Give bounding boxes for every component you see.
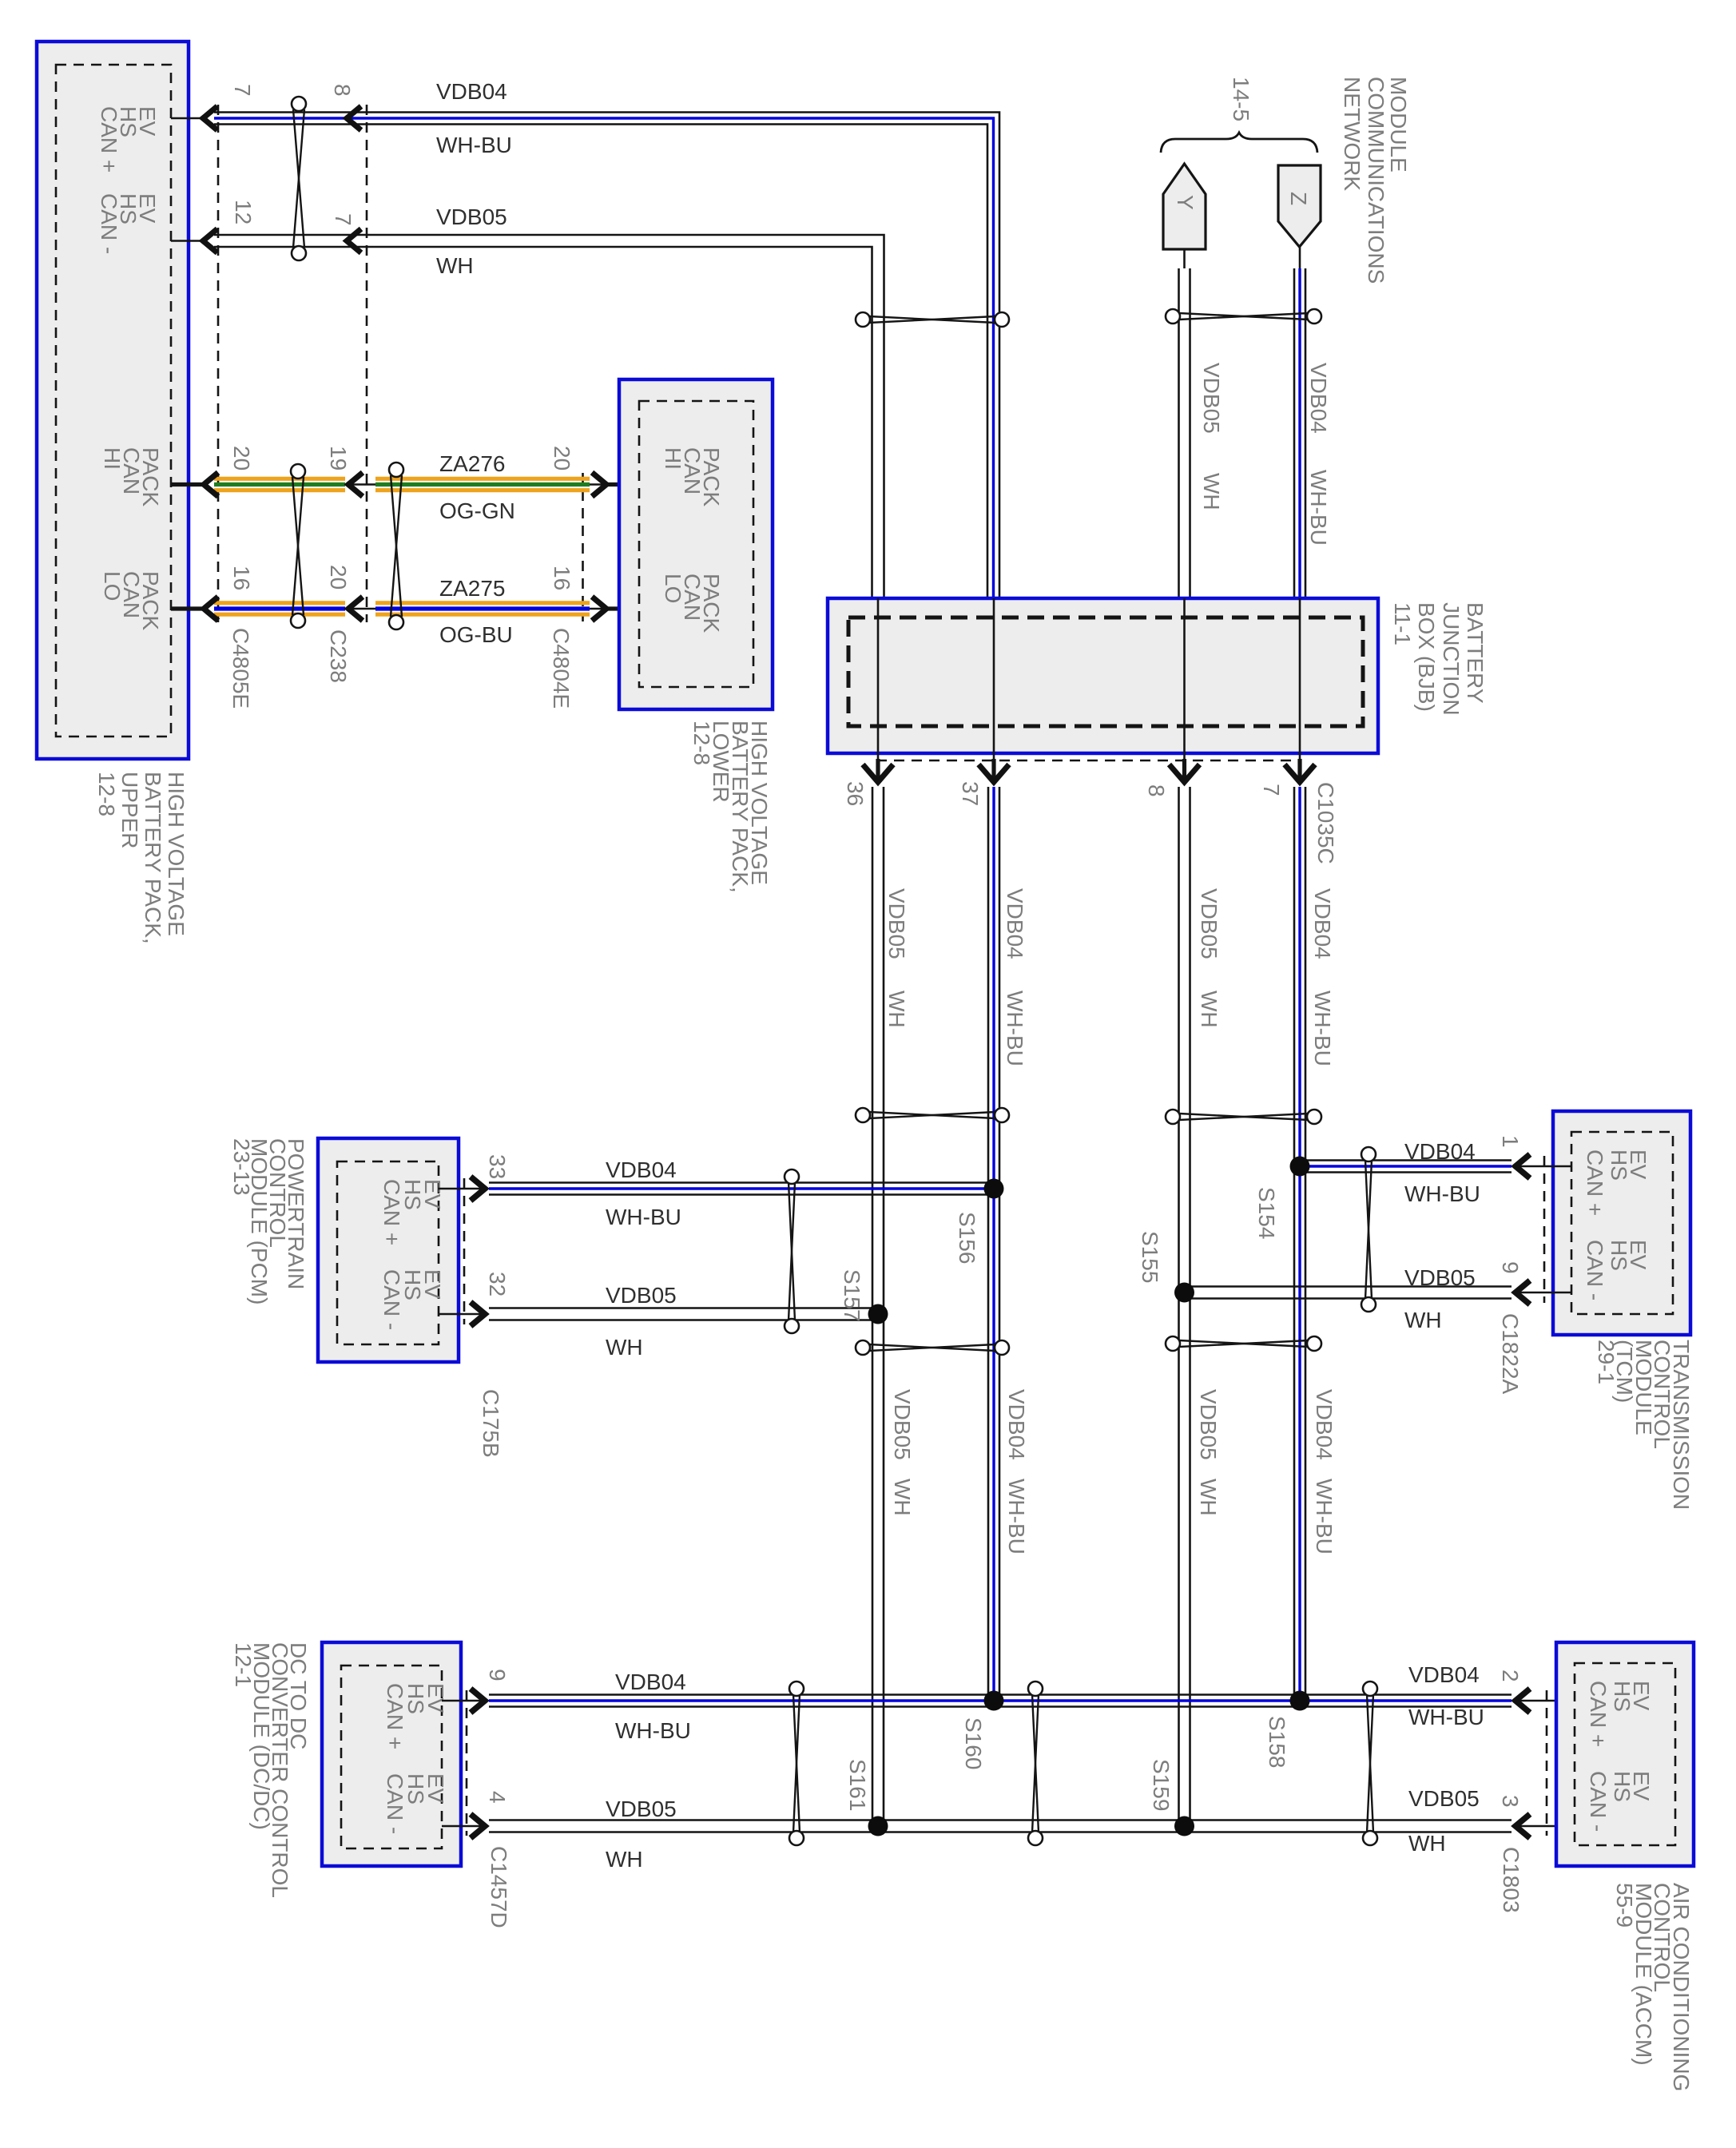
arrow at pin 9 (C1822A) <box>1516 1280 1530 1304</box>
arrow at pin 12 (C4805E) on VDB05 <box>203 229 217 253</box>
wire PACK CAN LO ZA275 OG-BU <box>171 603 639 614</box>
svg-text:S155: S155 <box>1138 1231 1162 1283</box>
svg-text:WH: WH <box>1408 1831 1446 1856</box>
svg-text:WH-BU: WH-BU <box>1312 1479 1337 1554</box>
svg-text:WH-BU: WH-BU <box>1306 470 1331 546</box>
svg-text:9: 9 <box>485 1669 510 1681</box>
svg-text:HIGH VOLTAGE: HIGH VOLTAGE <box>164 772 189 936</box>
svg-text:C238: C238 <box>326 629 351 683</box>
wire label VDB04 WH-BU (ACCM) <box>1408 1662 1484 1729</box>
svg-text:WH: WH <box>1197 991 1222 1028</box>
label: TRANSMISSION CONTROL MODULE (TCM) 29-1 <box>1594 1340 1694 1510</box>
svg-text:WH-BU: WH-BU <box>1404 1181 1480 1206</box>
pin label: EV HS CAN - (DC/DC) <box>383 1773 448 1834</box>
svg-text:CAN +: CAN + <box>383 1683 407 1749</box>
arrow at pin 32 (C175B) <box>471 1302 485 1326</box>
component box: AIR CONDITIONING CONTROL MODULE (ACCM) 55-9 <box>1556 1642 1694 1866</box>
wire label VDB04 WH-BU (DC/DC) <box>615 1670 691 1743</box>
wire label VDB05 WH (top) <box>436 204 507 278</box>
arrow at pin 7 (C4805E) on VDB04 <box>203 106 217 130</box>
svg-text:OG-GN: OG-GN <box>439 498 515 523</box>
svg-text:CAN -: CAN - <box>97 193 121 254</box>
pin label: PACK CAN HI (battery pack upper) <box>100 447 163 506</box>
wire label ZA275 OG-BU <box>439 576 513 647</box>
svg-text:COMMUNICATIONS: COMMUNICATIONS <box>1364 77 1388 284</box>
arrow at pin 20 (C238) on PACK CAN LO <box>348 597 363 621</box>
svg-text:WH: WH <box>1404 1308 1442 1332</box>
wire label VDB05 WH (middle run below S157) <box>890 1389 915 1516</box>
connector plane C175B (dashed) <box>463 1178 466 1324</box>
svg-text:VDB05: VDB05 <box>1196 1389 1221 1460</box>
svg-text:CAN +: CAN + <box>379 1179 404 1245</box>
svg-text:C1803: C1803 <box>1499 1847 1523 1913</box>
svg-text:VDB04: VDB04 <box>606 1157 677 1182</box>
svg-text:VDB05: VDB05 <box>606 1797 677 1821</box>
arrow at pin 7 (C238) on VDB05 <box>347 229 361 253</box>
svg-text:HS: HS <box>1607 1149 1631 1181</box>
svg-text:LO: LO <box>100 571 125 601</box>
svg-text:BATTERY PACK,: BATTERY PACK, <box>141 772 165 944</box>
svg-text:VDB04: VDB04 <box>1003 888 1027 959</box>
svg-text:CAN -: CAN - <box>379 1269 404 1330</box>
wire VDB04 through BJB (x=1627) <box>1299 598 1301 784</box>
wire VDB04 WH-BU from S154 to TCM <box>1300 1161 1571 1173</box>
svg-text:HI: HI <box>661 447 685 470</box>
svg-text:16: 16 <box>550 566 574 590</box>
svg-text:WH-BU: WH-BU <box>436 133 512 157</box>
off-page flag Y <box>1163 164 1206 249</box>
svg-text:37: 37 <box>958 781 983 806</box>
svg-text:WH-BU: WH-BU <box>615 1718 691 1743</box>
svg-text:7: 7 <box>230 84 255 97</box>
twisted pair symbol (Y/Z pair above BJB) <box>1166 309 1321 324</box>
pin label: EV HS CAN + (ACCM) <box>1586 1681 1654 1747</box>
svg-text:CAN +: CAN + <box>1586 1681 1611 1747</box>
svg-text:LO: LO <box>661 574 685 603</box>
junction S157 <box>868 1304 888 1324</box>
twisted pair symbol (right pair, above TCM level) <box>1166 1110 1321 1124</box>
twisted pair symbol (PACK CAN, left of C238) <box>291 464 305 628</box>
label: HIGH VOLTAGE BATTERY PACK, UPPER 12-8 <box>94 772 189 944</box>
svg-text:CAN -: CAN - <box>1583 1240 1607 1300</box>
svg-text:VDB04: VDB04 <box>436 79 507 104</box>
wire label VDB04 WH-BU (right run below S154) <box>1312 1389 1337 1554</box>
arrow at pin 9 (C1457D) <box>471 1689 485 1713</box>
pin label: PACK CAN LO (battery pack lower) <box>661 574 724 633</box>
svg-text:WH: WH <box>884 991 909 1028</box>
pin label: EV HS CAN - (PCM) <box>379 1269 445 1330</box>
svg-text:JUNCTION: JUNCTION <box>1439 602 1464 716</box>
wire label VDB04 WH-BU (middle run below BJB) <box>1003 888 1027 1066</box>
twisted pair symbol (middle pair, above PCM level) <box>856 1108 1009 1122</box>
svg-text:S156: S156 <box>955 1212 979 1264</box>
svg-text:WH: WH <box>1199 473 1224 510</box>
svg-text:BOX (BJB): BOX (BJB) <box>1414 602 1439 712</box>
connector plane C1822A (dashed) <box>1543 1156 1546 1303</box>
svg-text:C1035C: C1035C <box>1313 782 1338 864</box>
arrow pin 7 (C1035C) <box>1285 764 1315 782</box>
svg-text:WH: WH <box>1196 1479 1221 1516</box>
twisted pair symbol (middle pair above BJB) <box>856 312 1009 327</box>
arrow at pin 1 (C1822A) <box>1516 1154 1530 1178</box>
svg-text:C175B: C175B <box>479 1389 503 1458</box>
svg-text:20: 20 <box>229 446 254 470</box>
svg-text:BATTERY: BATTERY <box>1463 602 1488 704</box>
svg-text:HS: HS <box>1610 1771 1635 1802</box>
wire VDB04 WH-BU from PCM to S156 <box>439 1183 994 1195</box>
wire label VDB05 WH (middle run below BJB) <box>884 888 909 1028</box>
wire VDB05 WH from battery pack upper to BJB (second run) <box>171 235 884 598</box>
net label: MODULE COMMUNICATIONS NETWORK <box>1340 77 1411 284</box>
wire VDB05 WH from S155 to TCM <box>1185 1287 1572 1299</box>
svg-text:ZA275: ZA275 <box>439 576 506 601</box>
twisted pair symbol (PACK CAN, right of C238) <box>389 463 403 629</box>
wire VDB05 through BJB (x=1482.5) <box>1183 598 1186 784</box>
arrow at pin 20 (C4804E) on PACK CAN HI into lower pack <box>592 473 606 497</box>
svg-text:20: 20 <box>550 446 574 470</box>
arrow at pin 3 (C1803) <box>1516 1814 1530 1838</box>
junction S161 <box>868 1816 888 1836</box>
svg-text:S154: S154 <box>1254 1187 1279 1239</box>
pin label: EV HS CAN + (TCM) <box>1583 1149 1651 1216</box>
pin label: EV HS CAN - (ACCM) <box>1586 1771 1654 1832</box>
svg-text:C1457D: C1457D <box>487 1846 511 1928</box>
svg-text:VDB04: VDB04 <box>1306 363 1331 434</box>
label: DC TO DC CONVERTER CONTROL MODULE (DC/DC) 12-1 <box>231 1642 311 1898</box>
arrow at pin 8 (C238) on VDB04 <box>347 106 361 130</box>
svg-text:VDB05: VDB05 <box>436 204 507 229</box>
svg-text:32: 32 <box>485 1272 510 1296</box>
svg-text:NETWORK: NETWORK <box>1340 77 1365 191</box>
wire label VDB04 WH-BU (PCM) <box>606 1157 681 1229</box>
wire VDB05 WH from DC/DC to ACCM (bottom bus -) <box>442 1820 1575 1832</box>
connector box: HIGH VOLTAGE BATTERY PACK, UPPER 12-8 <box>37 42 189 759</box>
wire PACK CAN HI ZA276 OG-GN <box>171 478 639 490</box>
svg-text:VDB04: VDB04 <box>1408 1662 1480 1687</box>
connector plane C1803 (dashed) <box>1546 1690 1548 1836</box>
svg-text:OG-BU: OG-BU <box>439 622 513 647</box>
brace over flags Y and Z <box>1161 133 1317 153</box>
arrow at pin 16 (C4805E) on PACK CAN LO <box>204 597 218 621</box>
svg-text:1: 1 <box>1498 1135 1523 1148</box>
arrow pin 36 (C1035C) <box>863 764 893 782</box>
twisted pair symbol (ACCM CAN pair) <box>1363 1681 1377 1845</box>
svg-text:11-1: 11-1 <box>1390 602 1415 645</box>
svg-text:S161: S161 <box>845 1759 870 1811</box>
svg-text:C4804E: C4804E <box>549 628 574 709</box>
arrow at pin 33 (C175B) <box>471 1177 485 1201</box>
component box: DC TO DC CONVERTER CONTROL MODULE (DC/DC) 12-1 <box>322 1642 461 1866</box>
svg-text:HS: HS <box>1607 1240 1631 1271</box>
pin label: EV HS CAN + (battery pack upper) <box>97 106 160 173</box>
junction S160 <box>984 1691 1004 1711</box>
svg-text:7: 7 <box>1259 784 1284 796</box>
svg-text:7: 7 <box>331 213 356 226</box>
pin label: PACK CAN LO (battery pack upper) <box>100 571 163 630</box>
svg-text:VDB05: VDB05 <box>606 1283 677 1308</box>
svg-text:14-5: 14-5 <box>1229 77 1253 121</box>
wire VDB05 WH from PCM to S157 <box>439 1308 878 1320</box>
twisted pair symbol (DC/DC CAN pair) <box>789 1681 804 1845</box>
pin label: EV HS CAN - (battery pack upper) <box>97 193 160 254</box>
svg-text:12: 12 <box>231 200 256 224</box>
svg-text:16: 16 <box>229 566 254 590</box>
connector plane C4805E (dashed) <box>217 105 220 622</box>
svg-text:9: 9 <box>1498 1261 1523 1274</box>
wire VDB04 WH-BU from battery pack upper to BJB (top run) <box>171 113 999 599</box>
svg-text:Y: Y <box>1173 195 1198 210</box>
svg-text:36: 36 <box>843 781 868 806</box>
svg-text:VDB05: VDB05 <box>1408 1786 1480 1811</box>
svg-text:55-9: 55-9 <box>1612 1883 1637 1928</box>
svg-text:8: 8 <box>330 84 355 97</box>
svg-text:HS: HS <box>1610 1681 1635 1712</box>
wire label ZA276 OG-GN <box>439 451 515 523</box>
off-page flag Z <box>1278 165 1321 247</box>
svg-text:VDB05: VDB05 <box>1199 363 1224 434</box>
label: HIGH VOLTAGE BATTERY PACK, LOWER 12-8 <box>689 721 772 893</box>
component box: POWERTRAIN CONTROL MODULE (PCM) 23-13 <box>318 1138 459 1362</box>
connector plane C4804E (dashed) <box>582 473 584 621</box>
svg-text:VDB05: VDB05 <box>1404 1265 1476 1290</box>
junction S155 <box>1174 1283 1194 1303</box>
pin label: EV HS CAN - (TCM) <box>1583 1240 1651 1300</box>
svg-text:VDB04: VDB04 <box>1004 1389 1029 1460</box>
svg-text:S160: S160 <box>961 1717 986 1769</box>
svg-text:19: 19 <box>326 446 351 470</box>
wire label VDB05 WH (right run below S155) <box>1196 1389 1221 1516</box>
svg-text:33: 33 <box>485 1154 510 1179</box>
arrow pin 8 (C1035C) <box>1170 764 1200 782</box>
svg-text:S159: S159 <box>1149 1759 1174 1811</box>
wire VDB04 WH-BU from flag Z down to BJB <box>1294 247 1305 598</box>
wire VDB05 WH from flag Y down to BJB <box>1179 249 1190 598</box>
wire label VDB04 WH-BU (TCM) <box>1404 1139 1480 1206</box>
connector box: HIGH VOLTAGE BATTERY PACK, LOWER 12-8 <box>619 379 773 709</box>
wire label VDB05 WH (DC/DC) <box>606 1797 677 1872</box>
connector plane C1457D (dashed) <box>466 1690 468 1836</box>
component box: BATTERY JUNCTION BOX (BJB) 11-1 <box>828 598 1378 753</box>
junction S156 <box>984 1179 1004 1199</box>
svg-text:12-8: 12-8 <box>94 772 119 816</box>
svg-text:23-13: 23-13 <box>229 1138 254 1196</box>
arrow pin 37 (C1035C) <box>979 764 1009 782</box>
wire label VDB05 WH (ACCM) <box>1408 1786 1480 1856</box>
svg-text:20: 20 <box>326 565 351 590</box>
svg-text:C1822A: C1822A <box>1498 1313 1523 1395</box>
connector plane C238 (dashed) <box>366 105 368 622</box>
wire VDB04 WH-BU from DC/DC to ACCM (bottom bus +) <box>442 1695 1575 1707</box>
wire label VDB04 WH-BU (middle run below S156) <box>1004 1389 1029 1554</box>
twisted pair symbol (right pair, below TCM) <box>1166 1336 1321 1351</box>
svg-text:WH: WH <box>606 1335 643 1360</box>
junction S159 <box>1174 1816 1194 1836</box>
svg-text:HI: HI <box>100 447 125 470</box>
connector plane C1035C (dashed, below BJB) <box>876 760 1298 762</box>
twisted pair symbol (bottom bus, middle) <box>1028 1681 1043 1845</box>
svg-text:8: 8 <box>1144 784 1169 797</box>
wire label VDB05 WH (TCM) <box>1404 1265 1476 1332</box>
arrow at pin 20 (C4805E) on PACK CAN HI <box>204 473 218 497</box>
svg-text:2: 2 <box>1498 1670 1523 1682</box>
wire label VDB04 WH-BU (Z drop) <box>1306 363 1331 546</box>
svg-text:WH: WH <box>606 1847 643 1872</box>
svg-text:WH-BU: WH-BU <box>1003 991 1027 1066</box>
pin label: EV HS CAN + (PCM) <box>379 1179 445 1245</box>
svg-text:VDB04: VDB04 <box>1310 888 1335 959</box>
wire label VDB05 WH (PCM) <box>606 1283 677 1360</box>
svg-text:VDB04: VDB04 <box>1404 1139 1476 1164</box>
vertical run VDB04 WH-BU (middle, BJB to S160) <box>988 787 999 1701</box>
svg-text:3: 3 <box>1498 1795 1523 1808</box>
svg-text:VDB04: VDB04 <box>615 1670 686 1694</box>
svg-text:WH-BU: WH-BU <box>1004 1479 1029 1554</box>
wire label VDB04 WH-BU (top) <box>436 79 512 157</box>
arrow at pin 2 (C1803) <box>1516 1689 1530 1713</box>
svg-text:12-1: 12-1 <box>231 1642 256 1687</box>
svg-text:WH-BU: WH-BU <box>1310 991 1335 1066</box>
arrow at pin 19 (C238) on PACK CAN HI <box>348 473 363 497</box>
svg-text:ZA276: ZA276 <box>439 451 506 476</box>
svg-text:VDB05: VDB05 <box>890 1389 915 1460</box>
svg-text:MODULE: MODULE <box>1386 77 1411 173</box>
twisted pair symbol (EV HS CAN at battery pack upper) <box>292 97 306 260</box>
pin label: PACK CAN HI (battery pack lower) <box>661 447 724 506</box>
svg-text:CAN -: CAN - <box>1586 1771 1611 1832</box>
svg-text:S157: S157 <box>840 1269 864 1321</box>
svg-text:VDB04: VDB04 <box>1312 1389 1337 1460</box>
svg-text:UPPER: UPPER <box>117 772 142 848</box>
wire label VDB05 WH (Y drop) <box>1199 363 1224 510</box>
component box: TRANSMISSION CONTROL MODULE (TCM) 29-1 <box>1553 1111 1690 1335</box>
svg-text:WH-BU: WH-BU <box>606 1205 681 1229</box>
wire VDB05 through BJB (x=1099) <box>877 598 880 784</box>
svg-text:Z: Z <box>1286 192 1311 205</box>
label: POWERTRAIN CONTROL MODULE (PCM) 23-13 <box>229 1138 308 1304</box>
svg-text:WH-BU: WH-BU <box>1408 1705 1484 1729</box>
label: BATTERY JUNCTION BOX (BJB) 11-1 <box>1390 602 1488 716</box>
pin label: EV HS CAN + (DC/DC) <box>383 1683 448 1749</box>
arrow at pin 16 (C4804E) on PACK CAN LO into lower pack <box>592 597 606 621</box>
twisted pair symbol (PCM CAN pair) <box>785 1169 799 1333</box>
vertical run VDB04 WH-BU (right, BJB to S158) <box>1294 787 1305 1701</box>
svg-text:VDB05: VDB05 <box>884 888 909 959</box>
wire label VDB04 WH-BU (right run below BJB) <box>1310 888 1335 1066</box>
svg-text:VDB05: VDB05 <box>1197 888 1222 959</box>
svg-text:12-8: 12-8 <box>689 721 714 765</box>
svg-text:29-1: 29-1 <box>1594 1340 1619 1384</box>
svg-text:WH: WH <box>890 1479 915 1516</box>
wire label VDB05 WH (right run below BJB) <box>1197 888 1222 1028</box>
svg-text:CAN +: CAN + <box>97 106 121 173</box>
svg-text:WH: WH <box>436 253 474 278</box>
junction S154 <box>1290 1157 1310 1177</box>
svg-text:C4805E: C4805E <box>228 628 253 709</box>
vertical run VDB05 WH (right, BJB to S159) <box>1179 787 1190 1826</box>
twisted pair symbol (TCM CAN pair) <box>1361 1147 1376 1312</box>
svg-text:S158: S158 <box>1265 1716 1289 1768</box>
vertical run VDB05 WH (middle, BJB to S161) <box>872 787 884 1826</box>
svg-text:CAN +: CAN + <box>1583 1149 1607 1216</box>
junction S158 <box>1290 1691 1310 1711</box>
svg-text:CAN -: CAN - <box>383 1773 407 1834</box>
wire VDB04 through BJB (x=1244) <box>993 598 995 784</box>
label: AIR CONDITIONING CONTROL MODULE (ACCM) 55-9 <box>1612 1883 1694 2091</box>
arrow at pin 4 (C1457D) <box>471 1814 485 1838</box>
svg-text:4: 4 <box>485 1791 510 1804</box>
twisted pair symbol (middle pair, below PCM) <box>856 1340 1009 1355</box>
